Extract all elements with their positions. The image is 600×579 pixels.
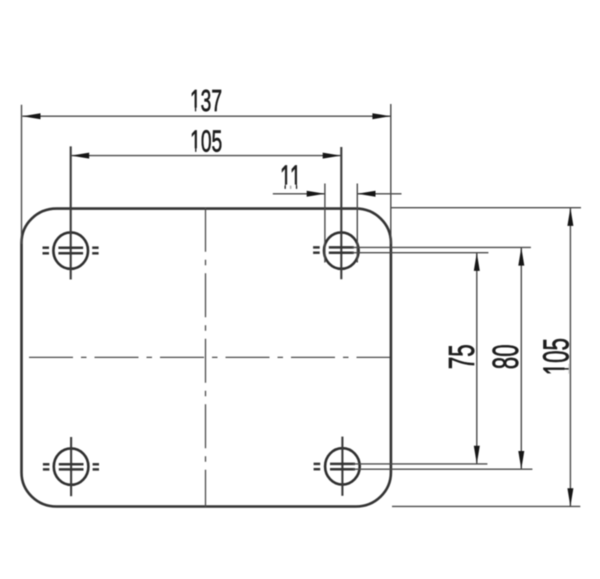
hole top-right left center dashes — [313, 247, 354, 252]
svg-text:105: 105 — [537, 338, 577, 375]
arrow 80 top — [518, 247, 524, 265]
ext line 105 right top edge — [391, 207, 581, 209]
hole bottom-left — [54, 448, 89, 484]
label 137 — [190, 85, 222, 119]
arrow 137 right — [372, 113, 390, 119]
ext line 80 bottom (through hole to right) — [353, 468, 532, 470]
hole top-left horizontal center dashes — [43, 248, 99, 254]
ext line 75 bottom (through hole to right) — [353, 463, 487, 465]
dimension line 80 — [520, 247, 522, 469]
arrow 137 left — [22, 113, 40, 119]
label 105 (rotated) — [537, 338, 577, 375]
label 105 top — [190, 125, 222, 159]
svg-text:105: 105 — [190, 125, 222, 159]
plate horizontal centerline (dash-dot) — [29, 356, 390, 358]
hole bottom-right left center dashes — [314, 464, 355, 469]
arrow 11 left pointing right — [307, 191, 325, 197]
hole bottom-left vertical centerline — [70, 437, 72, 496]
dimension line 11 (two outside segments) — [273, 193, 325, 195]
arrow 80 bottom — [518, 451, 524, 469]
hole bottom-right — [325, 448, 360, 484]
hole top-left — [53, 232, 88, 268]
dimension line 137 — [22, 115, 390, 117]
arrow 75 top — [474, 253, 480, 271]
hole top-left vertical centerline / ext for 105 — [70, 146, 72, 279]
dimension line 105 top — [71, 155, 341, 157]
svg-text:11: 11 — [280, 158, 301, 195]
ext line 80 top (through hole to right) — [352, 246, 531, 248]
white patches removing serif feet of digit 1 glyphs — [191, 108, 569, 375]
arrow 105 left — [71, 153, 89, 159]
svg-text:137: 137 — [190, 85, 222, 119]
arrowheads — [22, 113, 573, 506]
hole bottom-right vertical centerline — [341, 437, 343, 496]
ext line 75 top (through hole to right) — [352, 252, 488, 254]
arrow 105 right top — [567, 208, 573, 226]
ext line 11 left tangent — [324, 184, 326, 263]
label 75 (rotated) — [443, 344, 483, 369]
svg-text:75: 75 — [443, 344, 483, 369]
hole bottom-left horizontal center dashes — [43, 464, 99, 469]
ext line 105 right bottom edge — [392, 505, 580, 507]
dimension line 75 — [476, 253, 478, 464]
label 80 (rotated) — [487, 344, 527, 369]
dimension line 105 right — [569, 208, 571, 507]
hole top-right vertical centerline / ext for 105 — [340, 147, 342, 279]
ext line 137 right — [390, 104, 392, 244]
ext line 137 left — [21, 105, 23, 244]
arrow 11 right pointing left — [357, 191, 375, 197]
label 11 — [280, 158, 301, 195]
arrow 75 bottom — [474, 446, 480, 464]
svg-text:80: 80 — [487, 344, 527, 369]
hole top-right — [324, 232, 359, 268]
plate outline — [22, 209, 391, 507]
plate vertical centerline (dash-dot) — [205, 208, 207, 507]
ext line 11 right tangent — [356, 184, 358, 263]
arrow 105 right bottom — [567, 488, 573, 506]
arrow 105 right — [323, 153, 341, 159]
